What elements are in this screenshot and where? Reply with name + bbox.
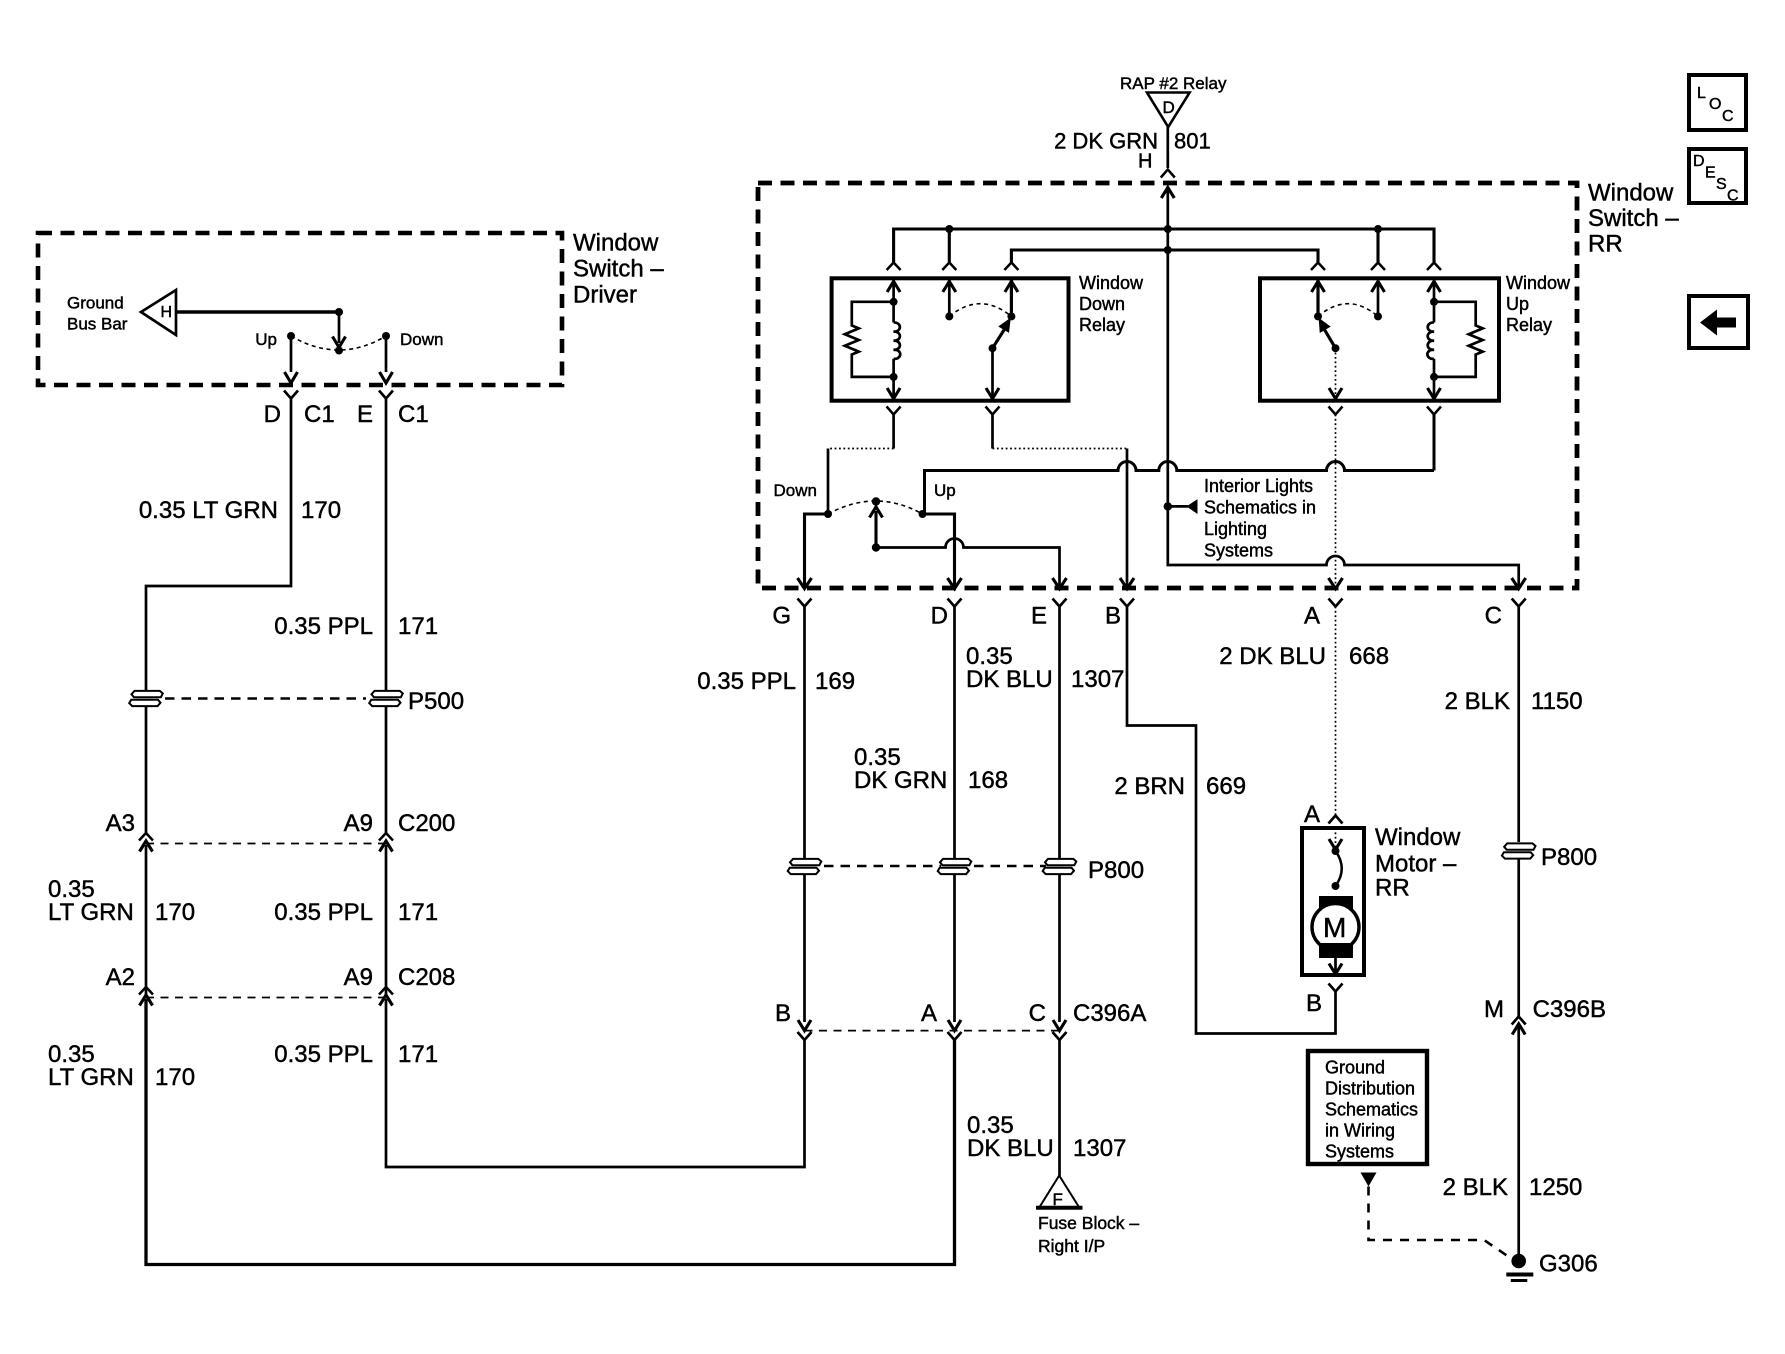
node bus2 at 1167	[1164, 246, 1172, 254]
connector C396B chevron and arrow	[1512, 1017, 1526, 1035]
svg-text:0.35 PPL: 0.35 PPL	[697, 668, 796, 695]
node coil bottom	[890, 373, 898, 381]
label 2 DK GRN 801 H	[1054, 129, 1211, 173]
wire down relay pole to B terminal (splice)	[991, 415, 994, 449]
svg-text:RR: RR	[1588, 231, 1623, 258]
P800 dashed link 1	[824, 865, 941, 868]
connector chevron H at RR box entry	[1161, 170, 1175, 178]
C396A pin B arrow and chevron	[798, 1020, 812, 1040]
wire power feed to C exit	[1168, 506, 1526, 588]
svg-text:Driver: Driver	[573, 282, 637, 309]
wire 2 BLK 1250 to ground	[1517, 1026, 1520, 1261]
svg-text:Up: Up	[934, 481, 956, 500]
svg-text:Relay: Relay	[1079, 315, 1125, 335]
node bus1 at 1378	[1374, 225, 1382, 233]
svg-text:A: A	[1304, 801, 1320, 828]
label 2 DK BLU 668	[1219, 643, 1389, 670]
wire 0.35 LT GRN 170 from pin D	[146, 399, 291, 691]
label Window Down Relay	[1079, 273, 1144, 335]
svg-text:A2: A2	[106, 964, 135, 991]
svg-text:C: C	[1722, 108, 1734, 125]
LOC icon box	[1689, 75, 1746, 130]
svg-text:Up: Up	[1506, 294, 1529, 314]
back arrow icon box	[1689, 296, 1748, 348]
wire B down to exit	[1120, 449, 1134, 589]
wire down relay coil to Down contact (splice)	[892, 415, 895, 449]
inline connector P500 left symbol	[129, 691, 163, 706]
svg-text:D: D	[931, 603, 948, 630]
svg-text:C396A: C396A	[1073, 1000, 1146, 1027]
svg-text:Window: Window	[1588, 180, 1674, 207]
svg-text:1307: 1307	[1071, 666, 1124, 693]
wire H bus to switch pole	[176, 310, 339, 313]
wire PPL continues below P500	[385, 707, 388, 833]
interior lights reference pointer	[1168, 500, 1197, 513]
node down relay middle contact	[945, 312, 953, 320]
label 0.35 LT GRN 170	[139, 497, 341, 524]
down relay pole exit	[986, 348, 999, 399]
labels M C396B	[1484, 996, 1606, 1023]
node down relay pivot	[989, 344, 997, 352]
svg-text:A: A	[1304, 603, 1320, 630]
connector row C396A dashed line	[805, 1030, 1060, 1032]
node bus1 at 1167	[1164, 225, 1172, 233]
label 0.35 PPL 171	[274, 613, 438, 640]
connector chevron E C1	[379, 391, 393, 399]
svg-text:Systems: Systems	[1325, 1142, 1394, 1162]
P500 dashed link	[165, 697, 366, 700]
C200 right pin A9 chevron and arrow	[379, 833, 393, 998]
label Ground Distribution Schematics in Wiring Systems	[1325, 1058, 1418, 1162]
label 2 BLK 1250	[1443, 1174, 1583, 1201]
motor internal lead A (dotted, arrow down)	[1335, 828, 1337, 851]
node driver pole junction	[335, 308, 343, 316]
svg-text:Motor –: Motor –	[1375, 851, 1457, 878]
bus wire 2 (lower feed)	[1011, 250, 1318, 262]
svg-text:LT GRN: LT GRN	[48, 899, 134, 926]
relay coil winding (down relay)	[894, 322, 901, 376]
svg-text:Right I/P: Right I/P	[1038, 1236, 1105, 1256]
svg-text:C208: C208	[398, 964, 455, 991]
svg-text:D: D	[1163, 98, 1175, 117]
svg-text:A3: A3	[106, 810, 135, 837]
svg-text:Ground: Ground	[67, 294, 124, 313]
svg-text:D: D	[1693, 153, 1705, 170]
svg-text:Schematics in: Schematics in	[1204, 498, 1316, 518]
chevrons above window down relay terminals	[887, 263, 1019, 271]
C208 left pin A2 chevron and arrow	[139, 987, 153, 1006]
svg-text:1307: 1307	[1073, 1135, 1126, 1162]
label 0.35 PPL 171 mid	[274, 899, 438, 926]
svg-text:0.35 PPL: 0.35 PPL	[274, 899, 373, 926]
dashed arc up relay contacts	[1318, 304, 1378, 317]
C396A pin A arrow and chevron	[948, 1020, 962, 1040]
svg-text:171: 171	[398, 899, 438, 926]
dashed reference link to G306	[1369, 1187, 1513, 1260]
exit chevrons below RR box G D E B A C	[798, 599, 1526, 607]
wire feed from H down to bus	[1166, 188, 1169, 507]
wire D exit from Up contact	[923, 514, 962, 589]
ground distribution reference box	[1308, 1051, 1427, 1164]
arrow into RR box	[1161, 188, 1174, 199]
svg-text:169: 169	[815, 668, 855, 695]
svg-text:C1: C1	[304, 401, 335, 428]
inline connector P800 row: E symbol	[1043, 859, 1077, 874]
svg-text:E: E	[1031, 603, 1047, 630]
svg-text:O: O	[1709, 96, 1721, 113]
up relay coil exit	[1428, 377, 1441, 399]
labels B A C C396A	[775, 1000, 1146, 1027]
wire 2 BLK 1150 (C)	[1517, 607, 1520, 843]
inline connector P800 on C wire	[1502, 843, 1536, 858]
ground bus bar symbol H	[141, 290, 176, 335]
inline connector P800 row: D symbol	[938, 859, 972, 874]
down relay switch arm	[993, 319, 1011, 349]
svg-text:Bus Bar: Bus Bar	[67, 315, 128, 334]
RR master switch dashed travel arc	[828, 501, 923, 514]
svg-text:RAP #2 Relay: RAP #2 Relay	[1120, 74, 1227, 93]
svg-text:G306: G306	[1539, 1251, 1598, 1278]
C200 left pin A3 chevron and arrow	[139, 833, 153, 998]
C396A pin C arrow and chevron	[1053, 1020, 1067, 1040]
wire 2 DK GRN 801 from RAP relay	[1166, 127, 1169, 168]
ground distribution pointer triangle	[1361, 1173, 1377, 1187]
dashed arc down relay contacts	[949, 304, 1011, 317]
pin labels G D E B A C	[772, 603, 1502, 630]
motor internal lead B (arrow down)	[1329, 958, 1342, 974]
label 0.35 LT GRN 170 mid	[48, 876, 195, 926]
svg-text:2 BLK: 2 BLK	[1443, 1174, 1508, 1201]
svg-text:2 BRN: 2 BRN	[1114, 773, 1185, 800]
wire PPL 171 to C396A pin B	[386, 999, 805, 1167]
svg-text:C: C	[1029, 1000, 1046, 1027]
wire driver pin E exit	[380, 336, 393, 383]
svg-text:DK GRN: DK GRN	[854, 767, 947, 794]
svg-text:Lighting: Lighting	[1204, 519, 1267, 539]
wire 0.35 DK GRN 168 (D)	[953, 607, 956, 859]
wire 0.35 DK BLU 1307 (E)	[1058, 607, 1061, 859]
svg-text:B: B	[1306, 990, 1322, 1017]
resistor R parallel (up relay)	[1434, 302, 1483, 377]
svg-text:669: 669	[1206, 773, 1246, 800]
wire LT GRN continues below P500	[145, 707, 148, 833]
wire A dotted from up relay pole to RR box exit	[1335, 415, 1337, 588]
RAP #2 relay triangle D	[1147, 93, 1190, 128]
inline connector P500 right symbol	[369, 691, 403, 706]
svg-text:G: G	[772, 603, 791, 630]
node up relay middle contact	[1374, 312, 1382, 320]
svg-text:RR: RR	[1375, 875, 1410, 902]
connector chevron below down relay pole	[986, 407, 1000, 415]
chevrons above window up relay terminals	[1311, 263, 1441, 271]
window switch RR dashed box	[758, 183, 1577, 588]
connector chevron below down relay coil	[887, 407, 901, 415]
DESC icon box	[1689, 149, 1746, 203]
window up relay box	[1260, 278, 1499, 400]
node motor arc bottom	[1332, 882, 1340, 890]
svg-text:170: 170	[155, 899, 195, 926]
svg-text:170: 170	[301, 497, 341, 524]
svg-text:Interior Lights: Interior Lights	[1204, 476, 1313, 496]
relay coil ground exit	[887, 377, 900, 399]
back arrow glyph	[1700, 310, 1736, 336]
node up relay coil bottom	[1430, 373, 1438, 381]
svg-text:M: M	[1484, 996, 1504, 1023]
svg-text:L: L	[1697, 85, 1706, 102]
ground G306 symbol	[1506, 1254, 1533, 1281]
node interior lights tap	[1164, 502, 1172, 510]
motor brush arc	[1336, 851, 1342, 886]
up relay fixed contact terminal (middle)	[1372, 278, 1385, 316]
label 0.35 PPL 171 lower	[274, 1041, 438, 1068]
svg-text:P800: P800	[1541, 844, 1597, 871]
connector chevron below up relay pole	[1329, 407, 1343, 415]
motor M circle	[1312, 904, 1359, 951]
relay switch supply terminal (down relay right)	[1005, 278, 1018, 316]
resistor R parallel (down relay)	[845, 302, 894, 377]
label Window Motor - RR	[1375, 824, 1461, 902]
svg-text:B: B	[775, 1000, 791, 1027]
svg-text:Window: Window	[573, 230, 659, 257]
inline connector P800 row: G symbol	[788, 859, 822, 874]
label 0.35 LT GRN 170 lower	[48, 1041, 195, 1091]
svg-text:Window: Window	[1375, 824, 1461, 851]
bus wire 1 (top feed)	[894, 229, 1434, 262]
wire 0.35 PPL 169 (G)	[803, 607, 806, 859]
wire C below P800	[1517, 859, 1520, 1017]
svg-text:801: 801	[1174, 129, 1211, 154]
label Interior Lights Schematics in Lighting Systems	[1204, 476, 1316, 561]
window motor chevron A	[1329, 816, 1343, 824]
svg-text:168: 168	[968, 767, 1008, 794]
label Fuse Block - Right I/P	[1038, 1213, 1139, 1256]
connector row C200 dashed line	[146, 843, 386, 845]
wire E exit from pole	[876, 539, 1067, 589]
svg-text:Schematics: Schematics	[1325, 1100, 1418, 1120]
svg-text:1250: 1250	[1529, 1174, 1582, 1201]
label 2 BRN 669	[1114, 773, 1246, 800]
svg-text:B: B	[1105, 603, 1121, 630]
node driver Up contact	[287, 332, 295, 340]
node bus1 at 949	[945, 225, 953, 233]
svg-text:D: D	[264, 401, 281, 428]
svg-text:Fuse Block –: Fuse Block –	[1038, 1213, 1139, 1233]
svg-text:Window: Window	[1506, 273, 1571, 293]
svg-text:171: 171	[398, 613, 438, 640]
svg-text:Relay: Relay	[1506, 315, 1552, 335]
svg-text:Switch –: Switch –	[573, 256, 664, 283]
svg-text:Switch –: Switch –	[1588, 205, 1679, 232]
label 0.35 DK BLU 1307	[966, 643, 1124, 693]
connector row C208 dashed line	[146, 997, 386, 999]
connector chevron below up relay coil	[1427, 407, 1441, 415]
svg-text:DK BLU: DK BLU	[966, 666, 1053, 693]
label Window Switch - Driver	[573, 230, 664, 309]
connector chevron D C1	[284, 391, 298, 399]
svg-text:Distribution: Distribution	[1325, 1079, 1415, 1099]
wire up relay coil to Up contact	[925, 415, 1435, 515]
svg-text:Up: Up	[255, 330, 277, 349]
node up relay coil top	[1430, 298, 1438, 306]
labels A3 A9 C200	[106, 810, 456, 837]
wire 0.35 PPL 171 from pin E	[385, 399, 388, 691]
relay switch fixed contact terminal (down relay middle)	[943, 278, 956, 316]
svg-text:A: A	[921, 1000, 937, 1027]
label Ground Bus Bar	[67, 294, 128, 334]
up relay coil terminal	[1428, 278, 1441, 322]
node motor top	[1332, 847, 1340, 855]
svg-text:C200: C200	[398, 810, 455, 837]
driver switch dashed travel arc	[291, 336, 386, 350]
label 0.35 DK BLU 1307 lower	[967, 1112, 1126, 1162]
svg-text:Systems: Systems	[1204, 541, 1273, 561]
node up relay pivot	[1332, 344, 1340, 352]
svg-text:S: S	[1716, 176, 1727, 193]
svg-text:170: 170	[155, 1064, 195, 1091]
svg-text:0.35 LT GRN: 0.35 LT GRN	[139, 497, 278, 524]
label 0.35 DK GRN 168	[854, 744, 1008, 794]
node driver Down contact	[382, 332, 390, 340]
svg-text:H: H	[1138, 151, 1152, 173]
label Window Switch - RR	[1588, 180, 1679, 258]
label 2 BLK 1150	[1445, 688, 1583, 715]
wire DK BLU 1307 to fuse block	[1058, 1040, 1061, 1176]
svg-text:Down: Down	[774, 481, 817, 500]
window down relay box	[832, 278, 1069, 400]
P800 dashed link 2	[974, 865, 1046, 868]
svg-text:C1: C1	[398, 401, 429, 428]
wire 2 DK BLU 668 (A) dotted to motor	[1335, 607, 1337, 816]
motor lower brush bar	[1319, 943, 1353, 958]
svg-text:171: 171	[398, 1041, 438, 1068]
wire LT GRN 170 to C396A pin A	[146, 999, 955, 1265]
pin labels D C1 E C1	[264, 401, 429, 428]
svg-text:2 BLK: 2 BLK	[1445, 688, 1510, 715]
wire G exit from Down contact	[798, 514, 829, 589]
svg-text:LT GRN: LT GRN	[48, 1064, 134, 1091]
node coil top	[890, 298, 898, 306]
node down relay right contact	[1007, 312, 1015, 320]
svg-text:C: C	[1485, 603, 1502, 630]
label 0.35 PPL 169	[697, 668, 855, 695]
svg-text:P800: P800	[1088, 857, 1144, 884]
up relay switch arm	[1319, 319, 1335, 348]
svg-text:2 DK BLU: 2 DK BLU	[1219, 643, 1326, 670]
svg-text:P500: P500	[408, 688, 464, 715]
C208 right pin A9 chevron and arrow	[379, 987, 393, 1006]
label Window Up Relay	[1506, 273, 1571, 335]
svg-text:668: 668	[1349, 643, 1389, 670]
svg-text:Down: Down	[400, 330, 443, 349]
svg-text:Window: Window	[1079, 273, 1144, 293]
svg-text:Down: Down	[1079, 294, 1125, 314]
svg-text:0.35 PPL: 0.35 PPL	[274, 613, 373, 640]
node up relay left contact	[1314, 312, 1322, 320]
labels A2 A9 C208	[106, 964, 456, 991]
up relay pole exit (dotted)	[1335, 348, 1337, 399]
RR master switch: node Down contact	[824, 510, 832, 518]
wire 2 BRN 669 (B) to motor	[1127, 607, 1336, 1034]
node RR master switch arc apex	[872, 497, 880, 505]
svg-text:F: F	[1053, 1190, 1063, 1209]
svg-text:A9: A9	[344, 810, 373, 837]
svg-text:M: M	[1323, 912, 1346, 943]
driver switch dashed box	[38, 233, 562, 385]
driver switch pole arm (arrow down)	[333, 312, 346, 348]
svg-text:Ground: Ground	[1325, 1058, 1385, 1078]
node RR master pole	[872, 543, 880, 551]
wires continue below P800 row	[805, 874, 1060, 1022]
node driver pole contact on arc	[335, 347, 343, 355]
svg-text:0.35 PPL: 0.35 PPL	[274, 1041, 373, 1068]
relay coil terminal (down relay)	[887, 278, 900, 322]
svg-text:C: C	[1727, 188, 1739, 205]
wire driver pin D exit	[285, 336, 298, 383]
svg-text:H: H	[161, 304, 173, 321]
svg-text:in Wiring: in Wiring	[1325, 1121, 1395, 1141]
svg-text:C396B: C396B	[1533, 996, 1606, 1023]
svg-text:DK BLU: DK BLU	[967, 1135, 1054, 1162]
svg-text:E: E	[1705, 165, 1716, 182]
RR master switch pole arm (arrow up)	[870, 507, 883, 548]
svg-text:A9: A9	[344, 964, 373, 991]
fuse block triangle F	[1036, 1176, 1083, 1210]
window motor chevron B	[1329, 984, 1343, 992]
motor upper brush bar	[1319, 896, 1353, 911]
window motor RR box	[1302, 828, 1364, 975]
svg-text:E: E	[357, 401, 373, 428]
svg-text:1150: 1150	[1531, 688, 1583, 715]
RR master switch: node Up contact	[919, 510, 927, 518]
up relay supply terminal (left)	[1312, 278, 1325, 316]
relay coil winding (up relay)	[1427, 322, 1434, 376]
